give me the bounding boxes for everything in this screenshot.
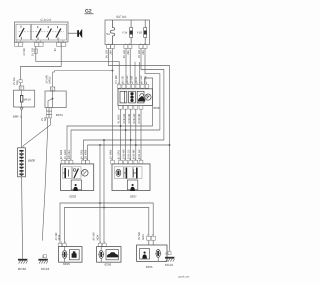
svg-text:2V NR4: 2V NR4 (109, 149, 112, 159)
svg-text:BB00: BB00 (28, 158, 36, 162)
wire F14 left pin to module (125, 49, 127, 85)
6290 pin numbers (61, 241, 67, 244)
svg-text:2B GR: 2B GR (126, 75, 129, 83)
svg-text:MF16: MF16 (24, 97, 32, 101)
svg-text:9V: 9V (54, 48, 57, 51)
svg-text:3V GR: 3V GR (138, 50, 141, 58)
wire module bottom pin3 to 6207 with dot on bus3 (130, 109, 132, 160)
wire labels above 6295 pins (138, 232, 145, 240)
wire labels below module pins (118, 114, 142, 124)
module icon 1 (door) (120, 91, 127, 103)
wire label under CA00 middle pins (32, 48, 35, 56)
maxi fuse box A (BMF) (14, 90, 35, 107)
svg-text:8VB NR: 8VB NR (133, 149, 136, 159)
ground MC22 (165, 257, 174, 267)
label 6290 (63, 262, 70, 266)
6207 icon 2 (124, 168, 126, 179)
lamp unit 6295 box (137, 245, 167, 261)
CA00 right section box (32, 24, 67, 40)
6258 pin numbers (100, 241, 106, 244)
svg-text:2VB NR: 2VB NR (123, 149, 126, 159)
svg-text:E: E (42, 255, 44, 258)
svg-text:8V GR: 8V GR (123, 50, 126, 58)
fusebox BF00 label (117, 15, 127, 19)
svg-text:6258: 6258 (105, 262, 112, 266)
6202 pin numbers (62, 158, 89, 161)
svg-text:NR 24A: NR 24A (68, 150, 71, 160)
6207 icon cells (114, 167, 142, 179)
svg-text:28A: 28A (110, 50, 113, 55)
svg-text:BF01: BF01 (56, 113, 64, 117)
6202 bottom symbol box (71, 180, 81, 191)
svg-text:9V NR: 9V NR (138, 232, 141, 240)
box A top pin 2 (19, 86, 24, 91)
control module 8630 box (118, 89, 153, 106)
svg-text:8630: 8630 (154, 106, 161, 110)
CA00 pin numbers (16, 40, 65, 43)
wire box B to ground MC24 (long slant) (42, 118, 47, 241)
wire bus3 drop to 6258 pin 2 (103, 139, 105, 243)
svg-text:8V NR: 8V NR (92, 232, 95, 240)
wire module bottom pin4 to 6207 with dot on bus4 (135, 109, 137, 160)
schematic number G2 (85, 8, 94, 14)
BF00 pin pair F14 (124, 45, 132, 49)
CA00 switch contact 1 (19, 26, 24, 40)
svg-text:MC60: MC60 (18, 267, 27, 271)
wire module bottom pin1 to 6207 with dot on bus1 (120, 109, 122, 160)
6202 icon 3 (82, 170, 89, 177)
6207 pin numbers (111, 158, 142, 161)
svg-text:MC22: MC22 (165, 263, 174, 267)
module icon 3 (car window) (137, 91, 145, 103)
module top pin row (117, 84, 149, 88)
wire labels above 6202 pins (60, 149, 88, 159)
svg-text:NR: NR (44, 117, 47, 121)
junction dot S4/6207 branch (112, 70, 114, 72)
6295 symbol box (140, 249, 150, 259)
battery junction connector BB00 (18, 148, 26, 177)
wire F14 right pin to module (129, 49, 131, 85)
feed line B to 6290 and 6295 (64, 208, 148, 244)
6202 top pin row (61, 160, 89, 164)
side repeater 6290 box (59, 247, 82, 263)
label 6258 (105, 262, 112, 266)
bus line 1 (67, 126, 153, 160)
svg-text:PV NR: PV NR (115, 75, 118, 83)
label BB00 (28, 158, 36, 162)
CA00 pin pair middle (35, 42, 44, 46)
ground MC60 (18, 259, 28, 271)
CA00 switch contact 2 (36, 26, 41, 40)
watermark (178, 276, 189, 279)
bus line 4 (88, 145, 170, 160)
svg-text:4L GR2: 4L GR2 (117, 150, 120, 160)
label 6202 (69, 194, 76, 198)
fuse MF16 inside box A (20, 90, 31, 107)
6258 bulb icon (98, 247, 104, 263)
wire box A to battery connector BB00 (21, 110, 23, 147)
CA00 ganged link dashed line (19, 31, 65, 33)
svg-text:MR12: MR12 (49, 76, 52, 84)
box B internal wire with node (48, 91, 53, 108)
wire label under CA00 left pins (23, 48, 26, 56)
svg-text:S4: S4 (106, 32, 110, 36)
wire module pins up short (inner loop) (144, 78, 152, 126)
BF00 pin pair S4 (107, 45, 115, 49)
module icon 2 (indicator stack) (129, 91, 136, 103)
svg-text:8V 2B: 8V 2B (121, 76, 124, 84)
wire module bottom pin5 to 6207 (140, 109, 142, 160)
wire module bottom pin2 to 6207 with dot on bus2 (125, 109, 127, 160)
wire module pin 6 up (139, 62, 141, 84)
svg-text:NO4: NO4 (97, 234, 100, 240)
box A bottom pin arrow (20, 108, 23, 111)
CA00 switch contact 3 (47, 26, 52, 40)
6290 symbol box (69, 250, 79, 260)
wire labels under BF00 F18 pins (138, 50, 145, 58)
svg-text:CA00: CA00 (41, 18, 52, 22)
svg-text:BMF 1: BMF 1 (13, 115, 22, 119)
label BF01 (56, 113, 64, 117)
fuse F18 (137, 20, 147, 45)
svg-text:8V GR2: 8V GR2 (80, 149, 83, 159)
box B bottom pin cluster (46, 108, 51, 118)
inline connector on box A wire (19, 80, 22, 83)
svg-text:2V NR: 2V NR (145, 76, 148, 84)
6207 icon 1 (116, 169, 121, 176)
6295 pin numbers (147, 234, 154, 237)
6202 icon 1 (63, 168, 68, 178)
fusebox BF00 box (105, 20, 150, 45)
6295 bulb icon (155, 249, 161, 261)
6207 icon 3 (133, 168, 136, 179)
junction box B (BF01 feed) (45, 91, 66, 108)
svg-text:28A: 28A (127, 50, 130, 55)
wire label above box B (45, 75, 51, 83)
BF00 pin numbers (108, 42, 147, 45)
connector E on MC24 wire (42, 255, 47, 259)
svg-text:9V GR: 9V GR (140, 75, 143, 83)
svg-text:6295: 6295 (146, 265, 153, 269)
ground MC24 (38, 259, 49, 271)
6290 bulb icon (62, 247, 68, 263)
svg-text:6290: 6290 (63, 262, 70, 266)
wire connector into box A pin 2 (20, 83, 22, 86)
svg-text:F14: F14 (123, 30, 128, 34)
6207 bottom symbol box (127, 180, 137, 191)
CA00 left section box (16, 24, 31, 40)
6202 icon 2 (73, 169, 78, 179)
svg-text:28A: 28A (142, 50, 145, 55)
svg-text:2B NR4: 2B NR4 (85, 149, 88, 159)
box B top pin 2 (50, 87, 54, 91)
wire CA00 right pin to fuse box A (21, 46, 62, 79)
wire to module pin 4 (134, 62, 136, 85)
svg-text:S: S (165, 252, 167, 255)
bus line 2 (71, 130, 160, 160)
wire F18 left pin down (141, 49, 164, 141)
wire F18 right pin down (145, 49, 160, 131)
module icon 4 (circled symbol) (145, 94, 151, 100)
svg-text:2V GR2: 2V GR2 (64, 149, 67, 159)
front lamp unit 6202 box (61, 164, 94, 191)
svg-text:NO4: NO4 (58, 234, 61, 240)
svg-text:BF00: BF00 (117, 15, 127, 19)
wire labels above 6207 pins (109, 149, 140, 159)
svg-text:2V BE: 2V BE (23, 48, 26, 56)
label 8630 (154, 106, 161, 110)
6290 top pins (58, 243, 66, 246)
label 6207 (130, 194, 137, 198)
wire labels under BF00 S4 pins (105, 50, 112, 58)
svg-text:8VD G2: 8VD G2 (138, 149, 141, 159)
fuse F14 (123, 20, 133, 45)
wire labels above 6258 pins (92, 232, 99, 240)
wire S4 right pin to box B (53, 71, 113, 88)
svg-text:3V NR: 3V NR (131, 76, 134, 84)
svg-text:6207: 6207 (130, 194, 137, 198)
svg-text:9V GR: 9V GR (105, 50, 108, 58)
wire labels under BF00 F14 pins (123, 50, 130, 58)
svg-text:F18: F18 (137, 30, 142, 34)
junction dot bus4 / MC22 wire (169, 144, 171, 146)
switch assembly CA00 outer box (14, 22, 68, 42)
label 6295 (146, 265, 153, 269)
wire S4 left pin outer loop to MC22 (109, 49, 170, 251)
side repeater 6258 box (97, 247, 121, 263)
wire label above box A (13, 77, 19, 85)
wire CA00 middle pin down (36, 46, 119, 84)
label BMF 1 (13, 115, 22, 119)
wire bus2 drop to 6258 pin 1 (99, 144, 101, 243)
svg-text:NO4: NO4 (142, 234, 145, 240)
svg-text:9V NR4: 9V NR4 (60, 149, 63, 159)
CA00 pin pair left (15, 42, 23, 46)
CA00 pin right (57, 42, 66, 46)
6207 top pin row (111, 160, 143, 164)
CA00 switch contact 4 (56, 26, 61, 40)
wire label under CA00 right pin (54, 48, 57, 51)
wire BB00 down to ground MC60 (22, 177, 23, 259)
CA00 pin stubs (17, 41, 64, 44)
svg-text:MC24: MC24 (41, 267, 50, 271)
6258 car symbol box (106, 250, 118, 260)
module top pin numbers (118, 82, 148, 85)
switch assembly CA00 label (41, 18, 52, 22)
feed line A to 6290 and 6295 (60, 203, 153, 243)
connector S on MC22 wire (165, 251, 171, 255)
BF00 pin pair F18 (139, 45, 147, 49)
svg-text:2VD G2: 2VD G2 (128, 149, 131, 159)
6295 top pins (147, 236, 156, 245)
6202 icon cells (63, 167, 81, 179)
horn symbol and lead from CA00 (68, 29, 82, 38)
connector box on CA00 middle wire (34, 49, 37, 53)
front lamp unit 6207 box (112, 164, 150, 191)
wire branch down to 6207 pin 1 (112, 49, 114, 161)
switch S4 (106, 20, 114, 45)
module bottom pin row (119, 105, 143, 109)
svg-text:uparfr.com: uparfr.com (178, 276, 189, 279)
svg-text:16A: 16A (16, 80, 19, 85)
wire labels above 6290 pins (55, 232, 61, 240)
svg-text:6202: 6202 (69, 194, 76, 198)
wire labels above module pins (115, 75, 148, 83)
wire labels left of box B pins (41, 117, 47, 121)
wire box B to BB00 (slanted) (23, 118, 50, 148)
svg-text:2B 4L: 2B 4L (135, 76, 138, 84)
bus line 3 (84, 140, 164, 160)
6258 top pins (98, 243, 106, 246)
